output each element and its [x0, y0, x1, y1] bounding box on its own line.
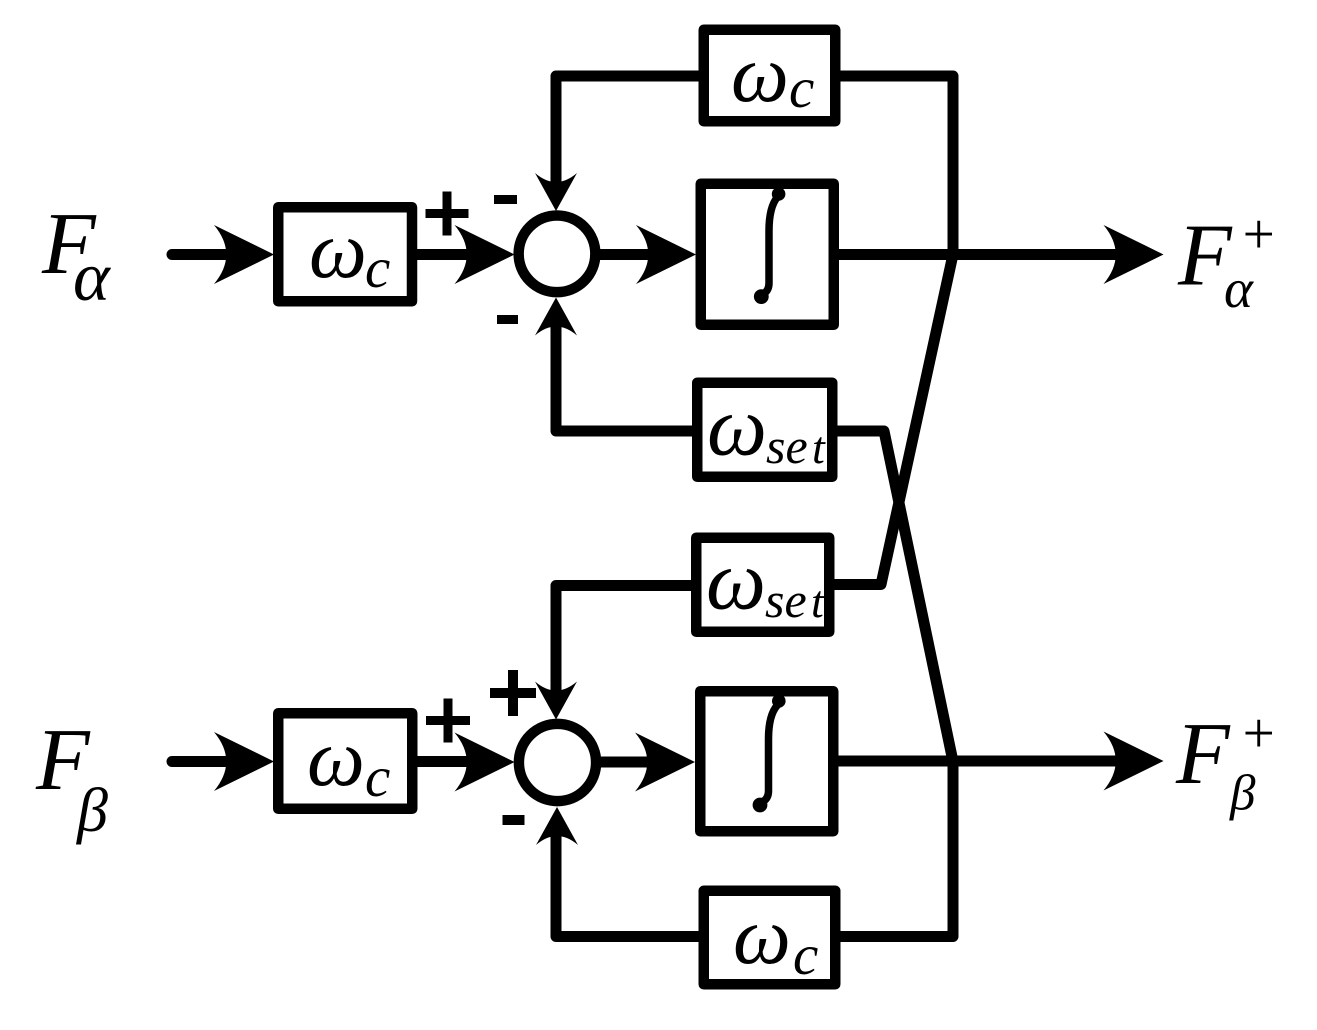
arrow into sum1 bottom	[535, 298, 577, 336]
arrow into sum2 bottom	[536, 807, 578, 845]
block wc3 (input filter, bottom)	[278, 712, 412, 809]
svg-text:se: se	[765, 572, 807, 628]
summing junction S2	[519, 724, 596, 801]
svg-text:c: c	[793, 924, 818, 987]
wire wc4 input from Fb+ line	[841, 762, 954, 937]
block wc2 (top feedback)	[704, 28, 836, 121]
svg-text:se: se	[766, 418, 808, 474]
svg-text:+: +	[1239, 702, 1277, 765]
svg-text:c: c	[365, 746, 390, 809]
wire wset1 output to sum1 bottom	[556, 315, 692, 431]
svg-text:c: c	[789, 57, 814, 120]
node Fb input label	[35, 712, 108, 845]
svg-text:ω: ω	[307, 712, 365, 803]
arrow into integrator1	[636, 225, 696, 284]
label plus sign at sum1 input	[426, 192, 469, 236]
wire integrator2 output to Fb+	[839, 756, 1119, 767]
svg-text:ω: ω	[706, 534, 766, 628]
wire input Fb	[172, 756, 232, 767]
svg-text:ω: ω	[733, 890, 791, 981]
svg-text:F: F	[1175, 706, 1231, 803]
wire feedback top: sum1 down-arrow branch	[556, 76, 699, 194]
arrow output Fa+	[1104, 225, 1164, 284]
svg-text:t: t	[812, 422, 826, 473]
arrow into block wc3	[214, 732, 274, 791]
arrow into sum2	[455, 733, 515, 792]
wire wset1 input diagonal from Fb+ line	[838, 431, 954, 762]
wire integrator1 output to Fa+	[839, 249, 1118, 260]
wire wc2 input from Fa+ line	[841, 76, 954, 255]
svg-text:β: β	[1229, 766, 1256, 822]
svg-text:α: α	[1224, 258, 1254, 319]
wire sum2 bottom to wc4	[556, 824, 699, 937]
svg-text:β: β	[76, 777, 108, 845]
svg-text:ω: ω	[309, 204, 367, 295]
label minus sign top of sum1	[494, 195, 517, 204]
block integrator2	[700, 691, 833, 831]
wire input Fa	[172, 249, 232, 260]
block wset2	[696, 534, 829, 632]
wire wset2 input diagonal from Fa+ line	[835, 255, 954, 585]
label big plus top of sum2	[490, 670, 536, 716]
wire sum1 to integrator1	[600, 249, 654, 260]
wire wc1 to sum1	[417, 249, 472, 260]
arrow into integrator2	[635, 733, 695, 792]
label minus sign bottom of sum1	[497, 315, 518, 324]
label plus sign at sum2 input	[426, 699, 470, 743]
arrow into sum2 top	[535, 682, 577, 720]
arrow into sum1 top	[535, 173, 577, 211]
wire wset2 output to sum2 top	[556, 586, 691, 703]
arrow into sum1	[455, 225, 515, 284]
node Fb+ output label	[1175, 702, 1277, 822]
svg-text:ω: ω	[707, 380, 767, 474]
svg-text:t: t	[811, 576, 825, 627]
block wc4 (bottom feedback)	[704, 890, 836, 987]
node Fa+ output label	[1177, 203, 1277, 319]
svg-text:c: c	[365, 237, 390, 300]
summing junction S1	[519, 215, 596, 292]
wire wc3 to sum2	[418, 756, 473, 767]
arrow output Fb+	[1104, 732, 1164, 791]
block wc1 (input filter, top)	[278, 204, 412, 301]
wire sum2 to integrator2	[601, 757, 654, 768]
svg-text:α: α	[73, 239, 111, 316]
block wset1	[697, 380, 832, 477]
svg-text:+: +	[1239, 203, 1277, 266]
label minus sign bottom of sum2	[503, 815, 525, 825]
block integrator1	[701, 184, 834, 325]
arrow into block wc1	[214, 225, 274, 284]
svg-text:ω: ω	[731, 28, 789, 119]
node Fa input label	[41, 196, 111, 316]
